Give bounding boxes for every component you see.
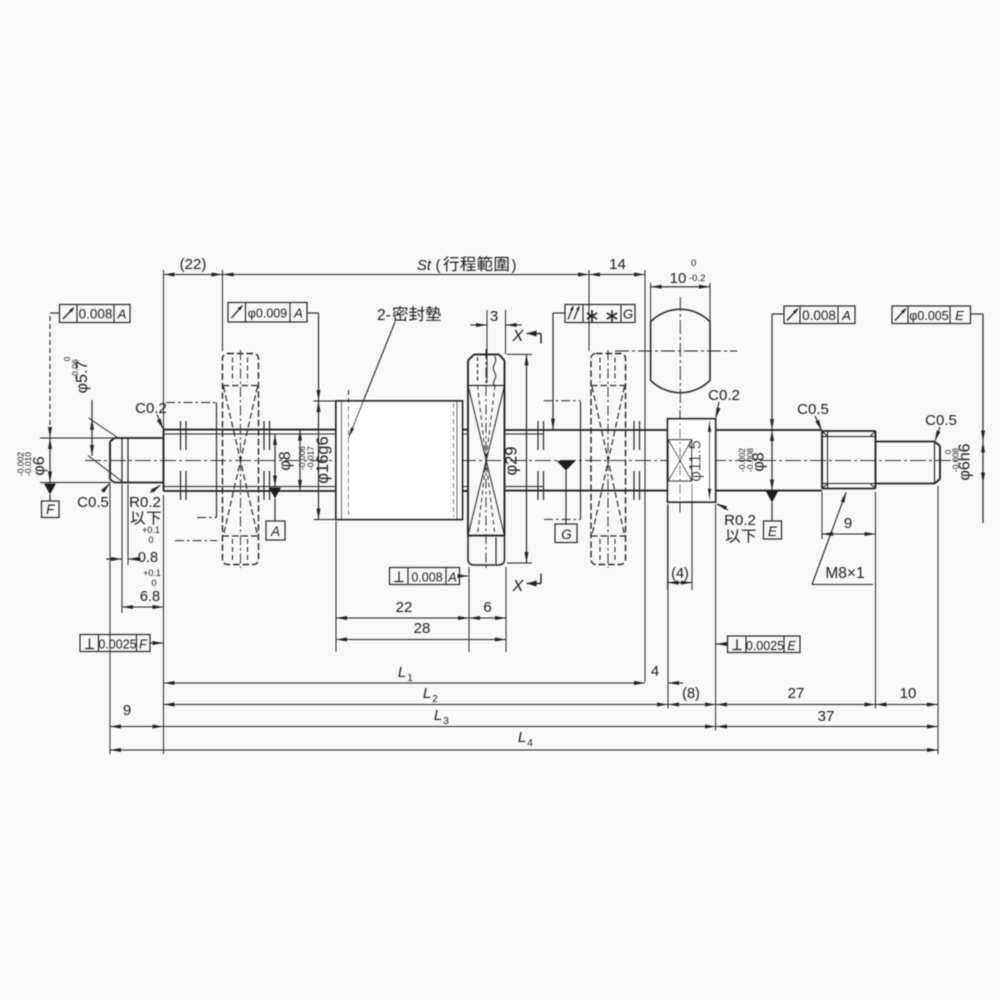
svg-text:37: 37 (818, 708, 835, 725)
svg-text:φ8: φ8 (277, 451, 294, 470)
svg-text:0.008: 0.008 (411, 571, 442, 585)
svg-text:A: A (841, 308, 851, 323)
fcf perp 0.0025 F (80, 635, 150, 652)
thread runout ticks 1 (180, 421, 182, 450)
svg-text:3: 3 (490, 308, 498, 325)
fcf runout phi0.009 A nut (228, 303, 307, 323)
screw thread section left (164, 429, 337, 431)
seal holder top cap (474, 353, 499, 355)
threaded section M8 (822, 430, 876, 432)
extension x336 down (335, 521, 337, 652)
journal phi6 top edge (115, 437, 164, 439)
thread runout ticks 4 (633, 421, 635, 450)
svg-text:0.008: 0.008 (79, 307, 113, 322)
dim L3 (164, 726, 717, 728)
dim 10 right (876, 704, 939, 706)
svg-text:3: 3 (443, 716, 449, 727)
dim L2 (164, 704, 669, 706)
datum E box (764, 521, 782, 539)
svg-text:St: St (417, 257, 432, 274)
svg-text:0.008: 0.008 (802, 308, 836, 323)
svg-text:0.0025: 0.0025 (98, 638, 136, 652)
svg-text:+0.1: +0.1 (143, 568, 161, 578)
svg-text:E: E (768, 524, 778, 539)
seal hidden line left (348, 390, 350, 517)
svg-text:0.0025: 0.0025 (746, 639, 784, 653)
svg-text:C0.5: C0.5 (77, 494, 109, 511)
datum G triangle (557, 461, 576, 471)
journal phi6 bottom edge (115, 482, 164, 484)
svg-text:φ29: φ29 (503, 446, 521, 475)
svg-text:φ6: φ6 (31, 456, 48, 475)
extension groove down (121, 484, 123, 613)
svg-text:C0.5: C0.5 (925, 412, 957, 429)
extension x506 down (505, 567, 507, 652)
fcf perp 0.008 A (390, 568, 460, 585)
svg-text:φ11.5: φ11.5 (687, 440, 705, 482)
svg-text:G: G (561, 527, 572, 542)
phantom housing line left (216, 403, 218, 518)
svg-text:L: L (434, 707, 442, 724)
extension line x163 upper (163, 270, 165, 430)
svg-text:6.8: 6.8 (140, 589, 160, 605)
svg-text:M8×1: M8×1 (825, 565, 864, 582)
svg-text:C0.5: C0.5 (797, 401, 829, 418)
dim phi6 with leader (49, 434, 51, 483)
thread runout ticks 3 (537, 421, 539, 450)
svg-text:(: ( (436, 257, 441, 274)
dim 4 (628, 682, 645, 684)
svg-text:0: 0 (151, 578, 156, 588)
centerline (shaft axis) (85, 460, 958, 462)
svg-text:9: 9 (844, 515, 852, 532)
svg-text:R0.2: R0.2 (724, 512, 756, 529)
fcf perp 0.0025 E (728, 636, 801, 653)
fcf runout 0.008 A right (784, 306, 855, 324)
end view circle with wrench flats (651, 309, 710, 392)
dim (22) (164, 274, 223, 276)
support bearing (phantom) left (223, 354, 259, 565)
dim thread od (299, 430, 301, 491)
svg-text:L: L (518, 729, 526, 746)
nut body phi16g6 (336, 401, 462, 520)
seal hidden line right (453, 403, 455, 517)
dim L4 (110, 749, 938, 751)
svg-text:14: 14 (609, 256, 626, 273)
svg-text:A: A (117, 307, 127, 322)
svg-text:2-: 2- (377, 307, 391, 324)
svg-text:(22): (22) (180, 256, 207, 273)
dim 9 thread length (821, 492, 823, 539)
extension x876 down (875, 492, 877, 709)
dim 6 (469, 617, 506, 619)
svg-text:-0.010: -0.010 (23, 452, 33, 476)
bearing square with cross (668, 440, 692, 481)
svg-text:0.8: 0.8 (138, 550, 158, 566)
svg-text:L: L (398, 664, 406, 681)
svg-text:A: A (447, 571, 456, 585)
extension x668 down (667, 504, 669, 709)
svg-text:X: X (512, 578, 525, 595)
dim phi8 left (274, 434, 276, 487)
end view centerlines (615, 350, 737, 352)
shaft phi8 middle bottom (505, 490, 668, 492)
extension lines left tip (40, 437, 114, 439)
support bearing (phantom) right (591, 354, 626, 565)
dim 0.8 (106, 558, 122, 560)
shaft phi8 right top (716, 429, 822, 431)
fcf runout 0.008 A left (60, 305, 131, 323)
datum E triangle (766, 492, 778, 503)
nut left chamfer line (341, 401, 343, 520)
svg-text:C0.2: C0.2 (708, 387, 740, 404)
svg-text:+0.1: +0.1 (142, 525, 160, 535)
dim 9 left end (110, 726, 164, 728)
dim phi11.5 (709, 421, 711, 500)
extension line x222 upper (222, 270, 224, 351)
lock nut centerline (679, 410, 681, 514)
extension x938 down (937, 486, 939, 754)
svg-text:φ16g6: φ16g6 (314, 436, 332, 483)
fcf runout phi0.005 E right (892, 306, 971, 324)
shoulder step at x163 (163, 430, 165, 491)
seal holder body with bearing cross (467, 386, 469, 536)
svg-text:F: F (46, 502, 55, 517)
svg-text:-0.008: -0.008 (745, 448, 755, 472)
extension line x589 upper (588, 270, 590, 351)
screw thread section mid stub (462, 429, 469, 431)
svg-text:G: G (623, 307, 633, 322)
shaft phi8 middle top (505, 429, 668, 431)
svg-text:10: 10 (900, 685, 917, 702)
fcf thread G frame (565, 305, 635, 323)
svg-text:-0.2: -0.2 (689, 273, 705, 284)
dim phi8 right (771, 430, 773, 491)
extension line x645 long (644, 270, 646, 682)
svg-text:): ) (512, 257, 517, 274)
svg-text:R0.2: R0.2 (129, 494, 161, 511)
dim 27 (716, 704, 876, 706)
dim 22 (336, 617, 469, 619)
dim L1 (164, 682, 646, 684)
svg-text:L: L (423, 685, 431, 702)
datum G box (555, 524, 577, 543)
svg-text:A: A (293, 306, 303, 321)
svg-text:27: 27 (788, 685, 805, 702)
dim 28 (336, 639, 506, 641)
dim phi16g6 (318, 401, 320, 520)
datum A box (266, 521, 285, 540)
nut bottom edge extension (314, 519, 337, 521)
svg-text:(4): (4) (671, 566, 689, 582)
nut top edge extension (314, 400, 337, 402)
svg-text:-0.06: -0.06 (70, 359, 80, 379)
lock nut block phi11.5 (668, 419, 716, 502)
svg-text:E: E (955, 308, 964, 323)
dim phi5.7 groove (91, 400, 93, 456)
shaft left tip edge (109, 442, 111, 480)
datum A triangle (269, 488, 281, 499)
datum F box (42, 501, 60, 518)
screw thread root lines right of flange (505, 433, 544, 435)
svg-text:X: X (512, 328, 525, 345)
dim 6.8 (122, 606, 164, 608)
svg-text:∗: ∗ (604, 306, 620, 327)
right journal phi6h6 (876, 441, 935, 443)
svg-text:9: 9 (123, 702, 131, 719)
svg-text:0: 0 (691, 258, 696, 269)
thread runout ticks 2 (263, 421, 265, 450)
shaft phi8 right bottom (716, 490, 822, 492)
datum F triangle (44, 484, 56, 495)
dim phi29 flange (507, 353, 532, 355)
nut right chamfer line (456, 401, 458, 520)
extension x163 down (163, 495, 165, 754)
svg-text:22: 22 (396, 599, 413, 616)
svg-text:C0.2: C0.2 (135, 400, 167, 417)
dim 37 (716, 726, 938, 728)
seal holder bottom cap (468, 536, 505, 565)
svg-text:6: 6 (483, 599, 491, 616)
svg-text:0: 0 (148, 535, 153, 545)
svg-text:10: 10 (670, 270, 687, 287)
svg-text:4: 4 (651, 664, 659, 680)
dim St stroke range (223, 274, 590, 276)
svg-text:2: 2 (432, 694, 438, 705)
snap-ring groove (121, 438, 123, 483)
extension x469 down (468, 567, 470, 652)
svg-text:φ0.009: φ0.009 (248, 307, 287, 321)
extension x110 down (109, 484, 111, 754)
phantom housing line right (580, 402, 582, 520)
svg-text:A: A (270, 524, 280, 539)
svg-text:(8): (8) (682, 686, 700, 702)
svg-text:E: E (787, 639, 796, 653)
svg-text:28: 28 (414, 620, 431, 637)
dim 10 with tolerance (651, 286, 710, 288)
dim (4) bearing width (667, 505, 669, 590)
svg-text:-0.008: -0.008 (951, 448, 961, 472)
dim 3 seal width (486, 310, 488, 383)
svg-text:4: 4 (527, 738, 533, 749)
svg-text:1: 1 (407, 673, 413, 684)
leader dashes left frame (49, 316, 51, 430)
svg-text:∗: ∗ (584, 306, 600, 327)
dim 14 (589, 274, 645, 276)
svg-text:φ0.005: φ0.005 (909, 309, 948, 323)
svg-text:-0.017: -0.017 (306, 446, 316, 470)
extension x716 down (715, 504, 717, 731)
dim (8) (668, 704, 716, 706)
dim phi6h6 (982, 442, 984, 484)
